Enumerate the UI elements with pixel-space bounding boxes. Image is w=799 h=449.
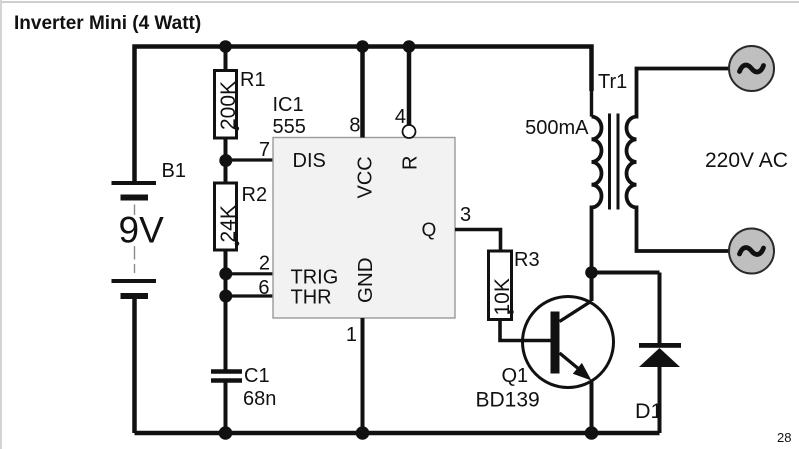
wire Q pin 3 to R3: [455, 230, 501, 252]
svg-text:Q1: Q1: [502, 365, 529, 387]
junction node top rail pin4: [403, 40, 416, 53]
wire diode top: [658, 273, 662, 345]
svg-text:R3: R3: [514, 249, 540, 271]
pin name GND: [354, 257, 377, 303]
resistor R1: [215, 69, 266, 138]
transformer Tr1 primary winding: [592, 117, 602, 273]
svg-text:Tr1: Tr1: [598, 71, 627, 93]
svg-text:555: 555: [273, 116, 306, 138]
inverter bubble pin 4: [403, 125, 416, 138]
svg-text:B1: B1: [162, 160, 186, 182]
resistor R3: [489, 249, 540, 320]
junction node ground pin1: [356, 426, 370, 440]
junction node pin6: [219, 290, 232, 303]
junction node ground C1: [219, 426, 233, 440]
transistor Q1: [476, 297, 614, 412]
svg-text:6: 6: [258, 277, 269, 299]
junction node pin2: [219, 267, 232, 280]
svg-text:4: 4: [395, 106, 406, 128]
svg-text:3: 3: [460, 204, 471, 226]
diode D1: [635, 343, 681, 423]
svg-text:1: 1: [346, 324, 357, 346]
wire C1 to ground rail: [224, 381, 228, 433]
svg-text:Q: Q: [422, 220, 437, 241]
svg-text:24K: 24K: [217, 205, 240, 242]
wire DIS pin 7 stub: [226, 158, 274, 161]
wire R1 to R2: [224, 138, 228, 183]
wire battery bottom to ground rail: [132, 298, 137, 434]
svg-text:Inverter Mini (4 Watt): Inverter Mini (4 Watt): [14, 13, 201, 34]
resistor R2: [215, 183, 268, 250]
svg-text:VCC: VCC: [355, 156, 377, 198]
svg-text:220V AC: 220V AC: [705, 149, 788, 172]
pin name VCC: [355, 156, 377, 198]
svg-text:2: 2: [259, 253, 270, 275]
wire THR pin 6 stub: [226, 294, 274, 297]
wire R2 to C1: [224, 250, 228, 371]
svg-text:R1: R1: [240, 69, 266, 91]
junction node collector: [585, 266, 598, 279]
wire collector to diode: [592, 271, 660, 275]
wire bottom ground rail: [135, 431, 660, 436]
junction node ground emitter: [585, 426, 599, 440]
wire TRIG pin 2 stub: [226, 272, 274, 275]
svg-text:THR: THR: [291, 287, 332, 309]
svg-text:R2: R2: [242, 184, 268, 206]
svg-text:68n: 68n: [243, 388, 276, 410]
wire reset pin 4: [407, 47, 412, 126]
svg-text:TRIG: TRIG: [291, 267, 339, 289]
svg-text:GND: GND: [354, 257, 377, 303]
svg-text:500mA: 500mA: [525, 117, 589, 139]
svg-text:7: 7: [259, 139, 270, 161]
svg-text:C1: C1: [244, 365, 270, 387]
transformer core: [608, 114, 611, 210]
junction node pin7: [219, 154, 232, 167]
svg-text:200K: 200K: [217, 81, 240, 130]
wire emitter down: [590, 381, 594, 434]
svg-text:28: 28: [777, 430, 791, 445]
svg-text:BD139: BD139: [476, 389, 540, 412]
AC terminal bottom: [729, 229, 774, 274]
wire rail to R1: [224, 47, 228, 72]
junction node top rail R1: [219, 40, 232, 53]
wire collector up: [590, 273, 594, 302]
wire GND pin 1: [361, 318, 365, 433]
svg-text:8: 8: [349, 115, 360, 137]
capacitor C1: [211, 365, 276, 410]
wire top rail from battery to transformer: [135, 47, 592, 184]
wire VCC pin 8: [360, 47, 365, 138]
wire R3 to base: [500, 320, 551, 341]
svg-text:9V: 9V: [119, 210, 165, 251]
battery B1: [112, 160, 186, 296]
pin name R: [400, 156, 422, 170]
svg-text:R: R: [400, 156, 422, 170]
wire diode bottom: [658, 367, 662, 433]
junction node top rail pin8: [356, 40, 369, 53]
svg-text:IC1: IC1: [273, 94, 304, 116]
AC terminal top: [729, 46, 774, 91]
transformer Tr1 secondary winding: [627, 69, 729, 252]
svg-text:DIS: DIS: [293, 150, 326, 172]
op-amp IC1 555 body: [273, 138, 455, 319]
